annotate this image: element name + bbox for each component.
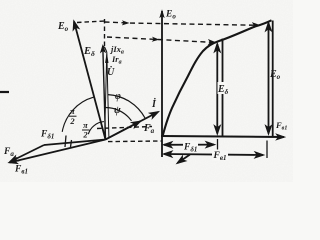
svg-text:2: 2: [69, 116, 75, 126]
svg-text:2: 2: [82, 130, 88, 140]
svg-text:U̇: U̇: [107, 65, 115, 78]
svg-text:ψ: ψ: [114, 105, 121, 116]
svg-text:φ: φ: [115, 91, 121, 102]
svg-text:π: π: [83, 120, 88, 130]
svg-text:π: π: [70, 106, 75, 116]
